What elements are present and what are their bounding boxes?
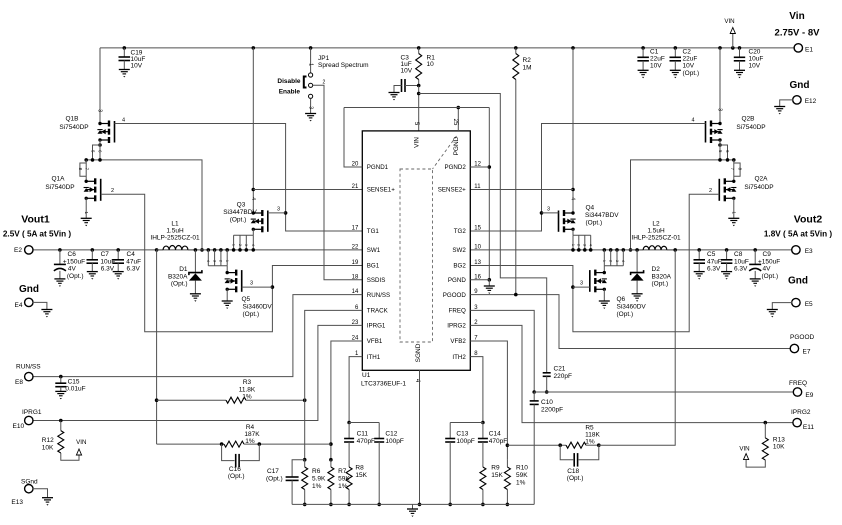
svg-text:VIN: VIN <box>724 18 734 25</box>
wire VFB1 net <box>331 341 362 460</box>
wire FREQ E9 line <box>534 391 794 393</box>
capacitor C8 <box>725 248 729 252</box>
svg-text:VFB2: VFB2 <box>450 338 466 345</box>
svg-text:(Opt.): (Opt.) <box>652 281 669 288</box>
svg-text:1: 1 <box>602 260 606 262</box>
svg-text:Si7540DP: Si7540DP <box>744 184 773 191</box>
resistor R2 <box>514 46 518 50</box>
svg-text:Gnd: Gnd <box>788 276 808 287</box>
svg-text:1.5uH: 1.5uH <box>647 228 665 235</box>
svg-text:(Opt.): (Opt.) <box>67 273 84 280</box>
svg-text:25: 25 <box>452 119 458 126</box>
svg-text:10V: 10V <box>401 68 413 75</box>
ground at PGND pin 16 <box>470 280 489 286</box>
wire VIN drop to Q1B <box>99 48 101 124</box>
svg-text:TG1: TG1 <box>367 228 380 235</box>
resistor R9 <box>480 467 486 490</box>
resistor R12 <box>59 419 63 423</box>
svg-text:C16: C16 <box>229 466 241 473</box>
svg-text:IPRG2: IPRG2 <box>791 409 811 416</box>
svg-text:C2: C2 <box>683 49 692 56</box>
svg-text:3: 3 <box>250 281 253 287</box>
svg-text:3: 3 <box>580 281 583 287</box>
capacitor C20 <box>738 46 742 50</box>
resistor R13 <box>764 421 768 425</box>
svg-text:R7: R7 <box>338 468 347 475</box>
svg-text:D1: D1 <box>179 266 188 273</box>
resistor R7 <box>330 460 332 467</box>
transistor Q6 Si3460DV <box>603 266 605 273</box>
svg-text:1%: 1% <box>245 438 255 445</box>
svg-text:3: 3 <box>212 260 216 262</box>
svg-text:6.3V: 6.3V <box>127 266 141 273</box>
svg-text:3: 3 <box>308 106 314 109</box>
wire ITH1 net <box>349 357 362 423</box>
svg-text:(Opt.): (Opt.) <box>228 473 245 480</box>
svg-text:L1: L1 <box>171 221 179 228</box>
svg-text:1: 1 <box>225 260 229 262</box>
svg-text:2: 2 <box>609 260 613 262</box>
svg-text:10V: 10V <box>683 63 695 70</box>
wire IPRG2 net <box>470 325 793 422</box>
svg-text:IHLP-2525CZ-01: IHLP-2525CZ-01 <box>631 235 681 242</box>
svg-text:3: 3 <box>583 244 587 246</box>
svg-text:470pF: 470pF <box>357 438 375 445</box>
svg-text:E13: E13 <box>11 499 23 506</box>
svg-text:Si7540DP: Si7540DP <box>59 124 88 131</box>
wire Q2A source to ground <box>733 198 735 218</box>
resistor R10 <box>504 467 510 490</box>
wire Q6 source to ground <box>603 289 605 301</box>
wire Vout2 to R5 (divider top) <box>673 248 677 252</box>
wire Q3 source from VIN rail <box>252 46 256 50</box>
svg-text:(Opt.): (Opt.) <box>567 475 584 482</box>
svg-text:Si7540DP: Si7540DP <box>45 184 74 191</box>
svg-text:(Opt.): (Opt.) <box>230 217 247 224</box>
wire Q2A drain loop <box>733 160 735 181</box>
svg-text:+150uF: +150uF <box>63 259 85 266</box>
svg-text:R4: R4 <box>246 424 255 431</box>
svg-text:Q2B: Q2B <box>741 116 754 123</box>
svg-text:100pF: 100pF <box>456 438 474 445</box>
svg-text:11: 11 <box>474 184 481 190</box>
svg-text:1.5uH: 1.5uH <box>166 228 184 235</box>
svg-text:C15: C15 <box>68 379 80 386</box>
svg-text:2: 2 <box>238 244 242 246</box>
capacitor C6 <box>58 248 62 252</box>
node VIN arrow <box>731 46 735 50</box>
svg-text:59K: 59K <box>338 476 350 483</box>
svg-text:E7: E7 <box>803 349 811 356</box>
wire TRACK net <box>305 310 363 459</box>
svg-text:2: 2 <box>111 188 114 194</box>
svg-text:ITH2: ITH2 <box>452 354 466 361</box>
svg-text:187K: 187K <box>244 431 260 438</box>
wire SW2 bar <box>631 160 734 250</box>
svg-text:(Opt.): (Opt.) <box>683 70 700 77</box>
transistor Q4 Si3447BDV <box>571 46 575 50</box>
svg-text:3: 3 <box>97 109 103 112</box>
jumper JP1 Spread Spectrum <box>309 46 313 50</box>
svg-text:15K: 15K <box>491 472 503 479</box>
svg-text:PGND2: PGND2 <box>444 164 466 171</box>
terminal E3 Vout2 <box>792 246 800 254</box>
resistor R8 <box>346 467 352 490</box>
svg-text:JP1: JP1 <box>318 55 330 62</box>
svg-text:15K: 15K <box>355 472 367 479</box>
wire Vout1 divider drop <box>156 250 158 444</box>
wire Q5 gate stub <box>242 286 273 288</box>
svg-text:Si3447BDV: Si3447BDV <box>223 209 257 216</box>
svg-text:Disable: Disable <box>277 78 301 85</box>
svg-text:4: 4 <box>570 197 576 200</box>
svg-text:13: 13 <box>474 260 481 266</box>
svg-text:Q1A: Q1A <box>51 176 65 183</box>
svg-text:R9: R9 <box>491 465 500 472</box>
svg-text:ITH1: ITH1 <box>367 354 381 361</box>
svg-text:BG1: BG1 <box>367 263 380 270</box>
svg-text:B320A: B320A <box>168 274 188 281</box>
svg-text:Gnd: Gnd <box>790 80 810 91</box>
svg-text:C7: C7 <box>101 251 110 258</box>
svg-text:118K: 118K <box>585 432 600 439</box>
svg-text:10uF: 10uF <box>749 56 764 63</box>
svg-text:2.75V - 8V: 2.75V - 8V <box>775 28 821 39</box>
capacitor C1 <box>641 46 645 50</box>
svg-text:C9: C9 <box>763 251 772 258</box>
svg-text:IPRG2: IPRG2 <box>447 323 466 330</box>
svg-text:E9: E9 <box>805 392 813 399</box>
svg-text:R13: R13 <box>773 437 785 444</box>
svg-text:4: 4 <box>250 197 256 200</box>
svg-text:U1: U1 <box>362 372 371 379</box>
svg-text:1%: 1% <box>242 394 252 401</box>
capacitor C19 <box>123 46 127 50</box>
wire SW1 bar <box>86 160 202 250</box>
svg-text:3: 3 <box>615 260 619 262</box>
svg-text:4V: 4V <box>68 266 77 273</box>
capacitor C18 (loop under R5) <box>560 445 573 460</box>
wire ITH2 net <box>470 357 483 423</box>
svg-text:Si3460DV: Si3460DV <box>617 304 647 311</box>
svg-text:59K: 59K <box>516 472 528 479</box>
svg-text:C11: C11 <box>357 431 369 438</box>
svg-text:C1: C1 <box>650 49 659 56</box>
capacitor C9 <box>753 248 757 252</box>
svg-text:VIN: VIN <box>414 137 421 148</box>
svg-text:C10: C10 <box>541 399 553 406</box>
svg-text:10K: 10K <box>773 444 785 451</box>
svg-text:4: 4 <box>206 260 210 262</box>
inductor L2 <box>631 249 644 251</box>
svg-text:1.8V ( 5A at 5Vin ): 1.8V ( 5A at 5Vin ) <box>764 230 833 239</box>
svg-text:RUN/SS: RUN/SS <box>16 364 41 371</box>
svg-text:Q5: Q5 <box>242 296 251 303</box>
svg-text:1: 1 <box>231 244 235 246</box>
svg-text:C12: C12 <box>385 431 397 438</box>
svg-text:6.3V: 6.3V <box>101 266 115 273</box>
wire VIN rail <box>100 47 795 49</box>
svg-text:TG2: TG2 <box>454 228 467 235</box>
svg-text:Q4: Q4 <box>586 205 595 212</box>
wire PGOOD net <box>470 295 791 349</box>
svg-text:R8: R8 <box>355 465 364 472</box>
svg-text:22uF: 22uF <box>683 56 698 63</box>
terminal E1 <box>794 44 802 52</box>
capacitor C11 <box>348 423 350 439</box>
svg-text:R2: R2 <box>523 57 532 64</box>
svg-text:E5: E5 <box>805 301 813 308</box>
svg-text:11.8K: 11.8K <box>239 387 256 394</box>
svg-text:VFB1: VFB1 <box>367 338 383 345</box>
wire Q2B pin loop <box>718 143 722 147</box>
svg-text:PGOOD: PGOOD <box>443 292 467 299</box>
svg-text:E3: E3 <box>805 248 813 255</box>
resistor R6 <box>304 460 306 467</box>
svg-text:Q3: Q3 <box>237 202 246 209</box>
wire IPRG1 net <box>32 325 362 420</box>
ground (bus) <box>412 504 414 509</box>
transistor Q2B Si7540DP <box>718 46 722 50</box>
capacitor C2 <box>674 46 678 50</box>
wire Q1A drain loop <box>85 160 87 181</box>
svg-text:19: 19 <box>352 260 359 266</box>
wire Vout2 rail <box>470 249 792 251</box>
svg-text:C4: C4 <box>127 251 136 258</box>
svg-text:10K: 10K <box>42 445 54 452</box>
svg-text:1%: 1% <box>312 483 322 490</box>
wire Q4 gate stub <box>542 212 559 214</box>
wire VFB2 net <box>470 341 507 460</box>
wire Q5 source to ground <box>226 289 228 301</box>
svg-text:10V: 10V <box>131 63 143 70</box>
svg-text:E8: E8 <box>15 379 23 386</box>
wire Q4 pin loop <box>572 229 574 235</box>
svg-text:15: 15 <box>474 226 481 232</box>
svg-text:SSDIS: SSDIS <box>367 277 386 284</box>
svg-text:2.5V ( 5A at 5Vin ): 2.5V ( 5A at 5Vin ) <box>3 230 72 239</box>
svg-text:220pF: 220pF <box>554 373 572 380</box>
svg-text:SENSE2+: SENSE2+ <box>438 187 466 194</box>
svg-text:1: 1 <box>308 63 314 66</box>
svg-text:C17: C17 <box>267 468 279 475</box>
wire SGND bottom bus <box>292 503 534 505</box>
capacitor C7 <box>91 248 95 252</box>
wire RUN/SS net <box>32 295 362 377</box>
capacitor C5 <box>697 248 701 252</box>
wire Q1A source to ground <box>85 198 87 218</box>
transistor Q5 Si3460DV pin loop <box>207 248 211 252</box>
svg-text:(Opt.): (Opt.) <box>762 273 779 280</box>
svg-text:Si7540DP: Si7540DP <box>736 124 765 131</box>
capacitor C13 <box>449 423 451 439</box>
svg-text:(Opt.): (Opt.) <box>617 311 634 318</box>
svg-text:IPRG1: IPRG1 <box>367 323 386 330</box>
svg-text:16: 16 <box>474 274 481 280</box>
svg-text:C13: C13 <box>456 431 468 438</box>
svg-text:R10: R10 <box>516 465 528 472</box>
svg-text:E2: E2 <box>14 247 22 254</box>
svg-text:E4: E4 <box>15 302 23 309</box>
svg-text:22uF: 22uF <box>650 56 665 63</box>
diode D1 B320A <box>194 248 198 252</box>
svg-text:47uF: 47uF <box>126 259 141 266</box>
wire PGND net right side <box>488 108 490 280</box>
svg-text:4: 4 <box>691 118 694 124</box>
wire Q1B pin loop <box>98 143 102 147</box>
svg-text:BG2: BG2 <box>453 263 466 270</box>
svg-text:C21: C21 <box>554 366 566 373</box>
capacitor C10 <box>533 392 535 401</box>
wire VIN branch to C21 <box>419 94 547 373</box>
svg-text:SGND: SGND <box>415 343 422 362</box>
svg-text:C6: C6 <box>68 251 77 258</box>
svg-text:1%: 1% <box>338 483 348 490</box>
svg-text:TRACK: TRACK <box>367 308 389 315</box>
svg-text:1M: 1M <box>523 65 532 72</box>
svg-text:VIN: VIN <box>76 439 86 446</box>
svg-text:FREQ: FREQ <box>789 380 807 387</box>
wire SENSE2+ line <box>470 189 573 191</box>
svg-text:R5: R5 <box>585 425 594 432</box>
svg-text:Gnd: Gnd <box>19 284 39 295</box>
svg-text:D2: D2 <box>652 266 661 273</box>
transistor Q5 Si3460DV <box>226 266 228 273</box>
svg-text:E1: E1 <box>805 47 813 54</box>
svg-text:Q1B: Q1B <box>65 116 78 123</box>
svg-text:PGND1: PGND1 <box>367 164 389 171</box>
svg-text:RUN/SS: RUN/SS <box>367 292 390 299</box>
svg-text:C18: C18 <box>567 468 579 475</box>
svg-text:4: 4 <box>589 244 593 246</box>
svg-text:5.9K: 5.9K <box>312 476 326 483</box>
svg-text:(Opt.): (Opt.) <box>266 476 283 483</box>
svg-text:10V: 10V <box>749 63 761 70</box>
svg-text:2: 2 <box>219 260 223 262</box>
svg-text:2: 2 <box>577 244 581 246</box>
svg-text:470pF: 470pF <box>489 438 507 445</box>
svg-text:PGND: PGND <box>448 277 466 284</box>
svg-text:4: 4 <box>251 244 255 246</box>
capacitor C21 <box>546 371 548 374</box>
svg-text:Si3447BDV: Si3447BDV <box>585 212 619 219</box>
svg-text:3: 3 <box>717 108 723 111</box>
svg-text:SW1: SW1 <box>367 247 381 254</box>
svg-text:12: 12 <box>474 162 481 168</box>
exposed pad (dashed) <box>400 169 433 342</box>
wire PGND pin 25 loop <box>457 108 459 131</box>
wire R1/C3 junction to IC VIN pin <box>418 86 420 131</box>
svg-text:PGOOD: PGOOD <box>790 334 815 341</box>
svg-text:1%: 1% <box>585 439 595 446</box>
svg-text:(Opt.): (Opt.) <box>243 311 260 318</box>
svg-text:C20: C20 <box>749 49 761 56</box>
svg-text:L2: L2 <box>652 221 660 228</box>
wire Q3 pin loop <box>252 229 254 235</box>
wire SENSE1+ line <box>253 189 362 191</box>
resistor R4 187K <box>157 443 224 445</box>
svg-text:Q6: Q6 <box>617 296 626 303</box>
svg-text:2: 2 <box>709 188 712 194</box>
svg-text:Vin: Vin <box>789 11 804 22</box>
svg-text:FREQ: FREQ <box>449 308 466 315</box>
wire PGND2 pin 12 <box>470 166 489 168</box>
svg-text:10uF: 10uF <box>734 259 749 266</box>
svg-text:SW2: SW2 <box>452 247 466 254</box>
capacitor C4 <box>116 248 120 252</box>
svg-text:E10: E10 <box>13 423 25 430</box>
wire PGND1 pin 20 <box>344 108 362 168</box>
diode D2 B320A <box>635 248 639 252</box>
capacitor C12 <box>378 423 380 439</box>
svg-text:Enable: Enable <box>279 89 301 96</box>
svg-text:R6: R6 <box>312 468 321 475</box>
transistor Q6 Si3460DV pin loop <box>603 248 607 252</box>
svg-text:E12: E12 <box>805 98 817 105</box>
wire FREQ pin to C10 <box>470 310 534 392</box>
svg-text:(Opt.): (Opt.) <box>171 281 188 288</box>
svg-text:1%: 1% <box>516 480 526 487</box>
svg-text:Q2A: Q2A <box>754 176 768 183</box>
svg-text:10V: 10V <box>650 63 662 70</box>
wire Q3 gate stub <box>268 212 286 214</box>
svg-text:R12: R12 <box>42 437 54 444</box>
svg-text:Si3460DV: Si3460DV <box>243 304 273 311</box>
svg-text:PGND: PGND <box>453 136 460 155</box>
svg-text:3: 3 <box>277 207 280 213</box>
resistor R3 11.8K <box>157 399 226 401</box>
svg-text:20: 20 <box>352 162 359 168</box>
svg-text:R3: R3 <box>243 379 252 386</box>
svg-text:1: 1 <box>571 244 575 246</box>
svg-text:4: 4 <box>122 118 125 124</box>
svg-text:VIN: VIN <box>739 446 749 453</box>
svg-text:4: 4 <box>621 260 625 262</box>
resistor R1 <box>417 46 421 50</box>
svg-text:18: 18 <box>352 274 359 280</box>
svg-text:100pF: 100pF <box>385 438 403 445</box>
svg-text:Vout1: Vout1 <box>21 214 50 226</box>
resistor R5 118K <box>507 444 566 446</box>
wire Q6 gate stub <box>573 286 590 288</box>
svg-text:B320A: B320A <box>652 274 672 281</box>
svg-text:10: 10 <box>427 61 435 68</box>
svg-text:Vout2: Vout2 <box>794 214 823 226</box>
svg-text:Spread Spectrum: Spread Spectrum <box>318 62 369 69</box>
svg-text:17: 17 <box>352 226 359 232</box>
svg-text:47uF: 47uF <box>707 259 722 266</box>
svg-text:IPRG1: IPRG1 <box>22 409 42 416</box>
svg-text:C5: C5 <box>707 251 716 258</box>
svg-text:4V: 4V <box>763 266 772 273</box>
svg-text:3: 3 <box>244 244 248 246</box>
svg-text:IHLP-2525CZ-01: IHLP-2525CZ-01 <box>150 235 200 242</box>
wire Vout1 rail <box>32 249 362 251</box>
svg-text:22: 22 <box>352 244 359 250</box>
terminal E2 Vout1 <box>25 246 33 254</box>
svg-text:21: 21 <box>352 184 359 190</box>
capacitor C17 (parallel R6) <box>292 460 305 477</box>
svg-text:(Opt.): (Opt.) <box>586 220 603 227</box>
svg-text:C14: C14 <box>489 431 501 438</box>
svg-text:6.3V: 6.3V <box>734 266 748 273</box>
capacitor C16 (loop under R4) <box>222 444 235 461</box>
svg-text:3: 3 <box>547 207 550 213</box>
capacitor C14 <box>482 423 484 439</box>
svg-text:6.3V: 6.3V <box>707 266 721 273</box>
svg-text:E11: E11 <box>803 424 814 431</box>
svg-text:2200pF: 2200pF <box>541 407 563 414</box>
